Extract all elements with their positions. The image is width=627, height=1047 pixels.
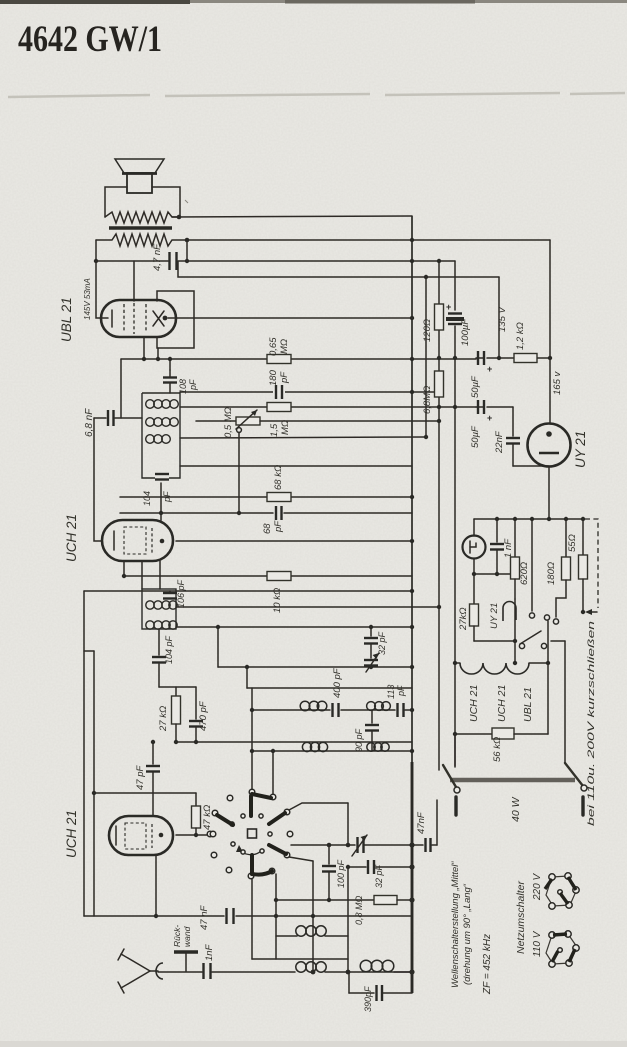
svg-text:145V 53mA: 145V 53mA bbox=[83, 278, 92, 320]
svg-text:32 pF: 32 pF bbox=[377, 631, 387, 655]
trimmer 32pF top bbox=[364, 627, 379, 672]
tube UCH21 first bbox=[102, 520, 173, 561]
svg-text:1 nF: 1 nF bbox=[503, 538, 514, 558]
mains switch right pole bbox=[551, 641, 587, 815]
dial lamp bbox=[463, 519, 486, 604]
svg-text:wand: wand bbox=[182, 926, 192, 947]
svg-text:27kΩ: 27kΩ bbox=[458, 607, 469, 631]
resistor 0,8MΩ bbox=[274, 896, 412, 905]
svg-text:104 pF: 104 pF bbox=[164, 635, 174, 664]
wire AVC line y438 bbox=[180, 437, 426, 438]
svg-text:68: 68 bbox=[262, 523, 273, 534]
svg-text:104: 104 bbox=[142, 491, 152, 506]
dashed arrow bbox=[585, 609, 597, 615]
IF transformer IFT1 bbox=[142, 393, 180, 478]
antenna coupling hook bbox=[156, 963, 163, 979]
heater chain UCH21 UCH21 UBL21 bbox=[455, 663, 548, 674]
label 104pF IFT1 bbox=[142, 491, 172, 506]
wire padder line y845 bbox=[291, 844, 437, 846]
resistor 56kΩ bbox=[455, 663, 548, 739]
capacitor 400pF bbox=[333, 703, 339, 717]
svg-text:MΩ: MΩ bbox=[279, 339, 290, 354]
wire coil row y710 bbox=[252, 709, 412, 711]
label 113pF bbox=[386, 685, 406, 699]
svg-text:4,7 nF: 4,7 nF bbox=[152, 243, 163, 271]
rosette center bbox=[248, 829, 257, 838]
UY21 heater symbol bbox=[503, 599, 516, 641]
capacitor 104pF IFT1 bbox=[155, 474, 169, 480]
wire IFT2 bottom stem bbox=[158, 629, 160, 687]
svg-text:47nF: 47nF bbox=[416, 811, 427, 834]
output transformer core bbox=[109, 226, 172, 230]
node primary-left bbox=[94, 259, 98, 263]
inductor L6 antenna bbox=[360, 960, 394, 972]
wire grid stem bbox=[133, 261, 135, 301]
svg-text:620Ω: 620Ω bbox=[519, 562, 530, 585]
rosette outer contacts bbox=[207, 789, 293, 879]
capacitor 113pF bbox=[398, 703, 404, 717]
wire line y742 bbox=[176, 741, 412, 743]
wire rosette to tube contact bbox=[210, 831, 216, 837]
scan crease band bbox=[8, 93, 625, 97]
wire grid stem IFT1 to UCH21 bbox=[160, 483, 162, 520]
wire drop x348 to antenna line bbox=[347, 867, 349, 972]
resistor 620Ω bbox=[511, 519, 520, 599]
bus V3 x439 bbox=[438, 261, 440, 770]
wire left drop to UBL21 grid side bbox=[96, 261, 101, 318]
capacitor 6,8nF bbox=[108, 410, 114, 426]
wire cathode stem to bottom line bbox=[155, 855, 157, 916]
mains switch bar bbox=[450, 778, 575, 782]
svg-text:UCH 21: UCH 21 bbox=[496, 685, 508, 722]
svg-text:27 kΩ: 27 kΩ bbox=[158, 706, 169, 732]
label 0,65MΩ bbox=[268, 337, 290, 356]
svg-text:180: 180 bbox=[268, 369, 279, 386]
wire loop bottom stem bbox=[157, 348, 159, 359]
label 108pF bbox=[178, 379, 198, 394]
inductor L5 antenna bbox=[296, 962, 326, 972]
wire 6,8nF line y418 bbox=[94, 417, 142, 419]
svg-text:pF: pF bbox=[396, 685, 406, 697]
wire left drop x94 to UCH21-1 bbox=[94, 418, 102, 541]
junction dots bus bbox=[410, 238, 414, 242]
svg-text:ZF = 452 kHz: ZF = 452 kHz bbox=[482, 934, 493, 995]
svg-text:Wellenschalterstellung „Mitte: Wellenschalterstellung „Mittel“ bbox=[450, 861, 461, 988]
dashed shorting link bbox=[585, 519, 598, 608]
node 27k bottom bbox=[174, 740, 178, 744]
wire stems to IFT2 bbox=[142, 561, 160, 589]
wire coil row y751 bbox=[252, 750, 412, 752]
wire plate top rail bbox=[172, 216, 412, 217]
wire screen rail to right bbox=[186, 239, 550, 241]
svg-text:bei 110u. 200V kurzschließen: bei 110u. 200V kurzschließen bbox=[586, 621, 597, 826]
wire 68pF line y513 bbox=[120, 512, 412, 514]
capacitor 22nF bbox=[506, 407, 549, 466]
svg-text:1,2 kΩ: 1,2 kΩ bbox=[515, 322, 526, 350]
svg-text:UY 21: UY 21 bbox=[573, 431, 588, 468]
svg-text:0,8 MΩ: 0,8 MΩ bbox=[354, 895, 364, 925]
node cathode line bbox=[142, 357, 146, 361]
bus V4 x455 bbox=[454, 261, 456, 767]
wire screen line y466 bbox=[180, 465, 412, 467]
wire UCH21-1 plate line y541 bbox=[176, 540, 412, 542]
wire 135V feed x499 bbox=[498, 277, 500, 358]
svg-text:50µF: 50µF bbox=[470, 425, 481, 448]
svg-text:pF: pF bbox=[279, 371, 290, 384]
wire antenna line y971 bbox=[158, 971, 412, 973]
wire left mid vertical x94 bbox=[93, 651, 95, 916]
wire cathode stem UCH21-1 bbox=[123, 561, 125, 576]
capacitor 68pF bbox=[276, 506, 282, 520]
output transformer T1 secondary winding bbox=[105, 212, 180, 223]
wire line y607 bbox=[176, 606, 439, 608]
capacitor 108pF bbox=[163, 359, 177, 393]
svg-text:55Ω: 55Ω bbox=[567, 534, 578, 552]
switch contacts heater bbox=[519, 519, 549, 663]
svg-text:220 V: 220 V bbox=[532, 873, 543, 901]
svg-text:MΩ: MΩ bbox=[280, 420, 291, 435]
wire UBL21 plate line y318 bbox=[168, 317, 412, 319]
wire V2 drop x426 bbox=[425, 277, 427, 437]
resistor 180Ω bbox=[553, 519, 570, 624]
capacitor 1nF lamp bbox=[490, 519, 504, 574]
wire rosette upper-right diagonal bbox=[289, 803, 348, 810]
svg-text:50µF: 50µF bbox=[470, 375, 481, 398]
wire corner x218 bbox=[217, 627, 219, 667]
resistor 6,8MΩ bbox=[435, 371, 444, 397]
svg-text:+: + bbox=[487, 364, 492, 374]
resistor 1,2kΩ bbox=[514, 354, 537, 363]
resistor 1,5MΩ bbox=[267, 403, 291, 412]
svg-text:UBL 21: UBL 21 bbox=[522, 687, 534, 722]
node loop-cathode line bbox=[156, 357, 160, 361]
wire line y688 bbox=[247, 687, 412, 689]
wire line y917 bbox=[84, 915, 412, 917]
wire cathode stem bbox=[143, 337, 145, 359]
label 180pF bbox=[268, 369, 290, 386]
svg-text:0,65: 0,65 bbox=[268, 337, 279, 356]
wire speaker loop bbox=[105, 187, 180, 217]
svg-text:UCH 21: UCH 21 bbox=[468, 685, 480, 722]
band switch rosette S1 bbox=[207, 789, 293, 879]
svg-text:pF: pF bbox=[188, 379, 198, 391]
wire drop x121 to 6,8nF line bbox=[120, 359, 122, 418]
wire HT line y358 bbox=[476, 357, 550, 359]
wire 10k line y576 bbox=[124, 575, 412, 577]
resistor 47kΩ bbox=[192, 793, 201, 835]
rosette rotor bars bbox=[217, 794, 286, 875]
wire left rail x84 bbox=[83, 591, 85, 916]
capacitor 390pF tank bbox=[349, 972, 412, 1001]
svg-text:4642 GW/1: 4642 GW/1 bbox=[18, 19, 162, 60]
node speaker/plate junction bbox=[177, 215, 182, 220]
node primary right bbox=[185, 238, 190, 243]
svg-text:106 pF: 106 pF bbox=[176, 579, 186, 608]
capacitor 1nF bbox=[204, 963, 211, 979]
capacitor 50µF upper bbox=[478, 351, 492, 374]
tube UY21 rectifier bbox=[528, 240, 571, 519]
mid tank L7 bbox=[252, 926, 348, 959]
resistor 120Ω bbox=[435, 304, 444, 330]
svg-text:120Ω: 120Ω bbox=[422, 319, 433, 342]
svg-text:47 kΩ: 47 kΩ bbox=[202, 805, 213, 830]
svg-text:22nF: 22nF bbox=[494, 430, 505, 454]
capacitor 106pF bbox=[163, 591, 177, 599]
wire drop x348 bbox=[347, 803, 349, 845]
svg-text:100 pF: 100 pF bbox=[336, 859, 346, 888]
wire 1,5M line y407 bbox=[180, 406, 476, 408]
wire rosette feeds bbox=[252, 688, 273, 794]
svg-text:56 kΩ: 56 kΩ bbox=[492, 737, 503, 762]
svg-text:+: + bbox=[487, 413, 492, 423]
svg-text:180Ω: 180Ω bbox=[546, 562, 557, 585]
scan border bottom bbox=[0, 1041, 627, 1047]
svg-text:390pF: 390pF bbox=[363, 986, 373, 1012]
wire 47k top line y793 bbox=[94, 792, 196, 794]
svg-text:0,5 MΩ: 0,5 MΩ bbox=[223, 407, 234, 438]
wire stub above padder bbox=[436, 800, 438, 845]
wire stub y651 bbox=[84, 650, 94, 652]
tube UCH21 second bbox=[109, 816, 173, 855]
capacitor 100pF bbox=[322, 845, 336, 900]
svg-text:6,8MΩ: 6,8MΩ bbox=[422, 386, 433, 414]
resistor 68kΩ bbox=[267, 493, 291, 502]
wire IFT1 to 180pF line y396 bbox=[180, 391, 439, 393]
inductor L1 bbox=[300, 701, 327, 711]
resistor 0,65MΩ bbox=[267, 355, 291, 364]
label 1,5MΩ bbox=[269, 420, 291, 437]
heater cluster top line y519 bbox=[474, 518, 583, 520]
wire primary left drop bbox=[95, 240, 97, 261]
svg-text:Netzumschalter: Netzumschalter bbox=[515, 881, 527, 954]
svg-text:pF: pF bbox=[273, 520, 284, 533]
inductor L3 bbox=[302, 742, 327, 751]
svg-text:Rück-: Rück- bbox=[172, 925, 182, 947]
capacitor 4,7nF bbox=[170, 252, 177, 270]
antenna ANT bbox=[118, 949, 158, 993]
svg-text:400 pF: 400 pF bbox=[332, 667, 343, 698]
IF transformer IFT2 bbox=[142, 589, 177, 629]
resistor 27kΩ heater bbox=[470, 604, 479, 641]
potentiometer 0,5MΩ bbox=[196, 410, 439, 515]
svg-text:113: 113 bbox=[386, 685, 396, 699]
svg-text:100µF: 100µF bbox=[460, 318, 471, 346]
svg-text:68 kΩ: 68 kΩ bbox=[273, 465, 284, 490]
Rückwand terminal bbox=[174, 952, 198, 971]
inductor L4 bbox=[367, 743, 389, 751]
capacitor 47pF grid2 bbox=[146, 742, 160, 816]
wire cathode line y359 bbox=[121, 358, 476, 360]
capacitor 100µF electrolytic bbox=[446, 302, 464, 324]
capacitor 470pF bbox=[189, 687, 203, 742]
svg-text:1,5: 1,5 bbox=[269, 423, 280, 437]
svg-text:1nF: 1nF bbox=[204, 943, 215, 961]
wire node y641 bbox=[474, 640, 515, 642]
svg-text:+: + bbox=[446, 302, 451, 312]
svg-text:470 pF: 470 pF bbox=[198, 700, 209, 731]
label Rückwand bbox=[172, 925, 192, 947]
label 68pF bbox=[262, 520, 284, 534]
wire line y667 bbox=[218, 666, 412, 668]
inductor L2 bbox=[367, 702, 391, 711]
capacitor 50µF lower bbox=[478, 400, 492, 423]
trimmer 32pF mid bbox=[352, 835, 367, 856]
mains switch left pole bbox=[443, 734, 460, 815]
wire node y687 bbox=[159, 686, 196, 688]
svg-text:47 nF: 47 nF bbox=[199, 905, 210, 930]
scan border top bbox=[0, 0, 627, 3]
voltage selector 110V bbox=[546, 931, 579, 967]
svg-text:UCH 21: UCH 21 bbox=[64, 514, 79, 562]
capacitor 90pF bbox=[365, 710, 379, 751]
main bus V1 x412 bbox=[411, 216, 413, 762]
output transformer T1 primary winding bbox=[96, 234, 186, 246]
svg-text:(drehung um 90° „Lang“: (drehung um 90° „Lang“ bbox=[462, 883, 473, 985]
resistor 55Ω bbox=[579, 519, 588, 614]
voltage selector 220V bbox=[545, 873, 579, 909]
svg-text:32 pF: 32 pF bbox=[374, 864, 384, 888]
tube UBL21 bbox=[101, 300, 176, 337]
wire primary right drop bbox=[186, 240, 188, 261]
capacitor 47nF padder bbox=[426, 838, 431, 852]
wire 68k line y497 bbox=[120, 496, 412, 498]
wire line y627 bbox=[176, 626, 412, 628]
wire line y591 bbox=[84, 590, 412, 592]
wire feedback line y261 bbox=[96, 260, 455, 262]
loudspeaker LS bbox=[115, 159, 164, 193]
feedback loop rectangle bbox=[157, 291, 194, 348]
svg-text:110 V: 110 V bbox=[532, 930, 543, 957]
svg-text:165 v: 165 v bbox=[552, 371, 563, 395]
wire UCH21-2 plate to switch bbox=[176, 834, 209, 836]
capacitor 47nF bbox=[227, 908, 234, 924]
svg-text:UCH 21: UCH 21 bbox=[64, 810, 79, 858]
wire HT line y407 bbox=[476, 406, 513, 408]
capacitor 104pF IFT2 bbox=[152, 657, 166, 663]
wire y277 line bbox=[178, 262, 499, 277]
svg-text:UY 21: UY 21 bbox=[489, 603, 500, 629]
wire lamp node y574 bbox=[474, 573, 515, 575]
resistor 10kΩ bbox=[267, 572, 291, 581]
wire rosette bottom drops bbox=[252, 874, 276, 959]
svg-text:90 pF: 90 pF bbox=[354, 728, 364, 752]
svg-text:40 W: 40 W bbox=[510, 796, 522, 822]
capacitor 32pF lower bbox=[346, 860, 415, 874]
svg-text:UBL 21: UBL 21 bbox=[59, 297, 74, 342]
svg-text:47 pF: 47 pF bbox=[135, 765, 146, 790]
capacitor 180pF bbox=[273, 385, 285, 399]
rosette inner contacts bbox=[230, 814, 272, 854]
resistor 27kΩ bbox=[172, 687, 181, 742]
